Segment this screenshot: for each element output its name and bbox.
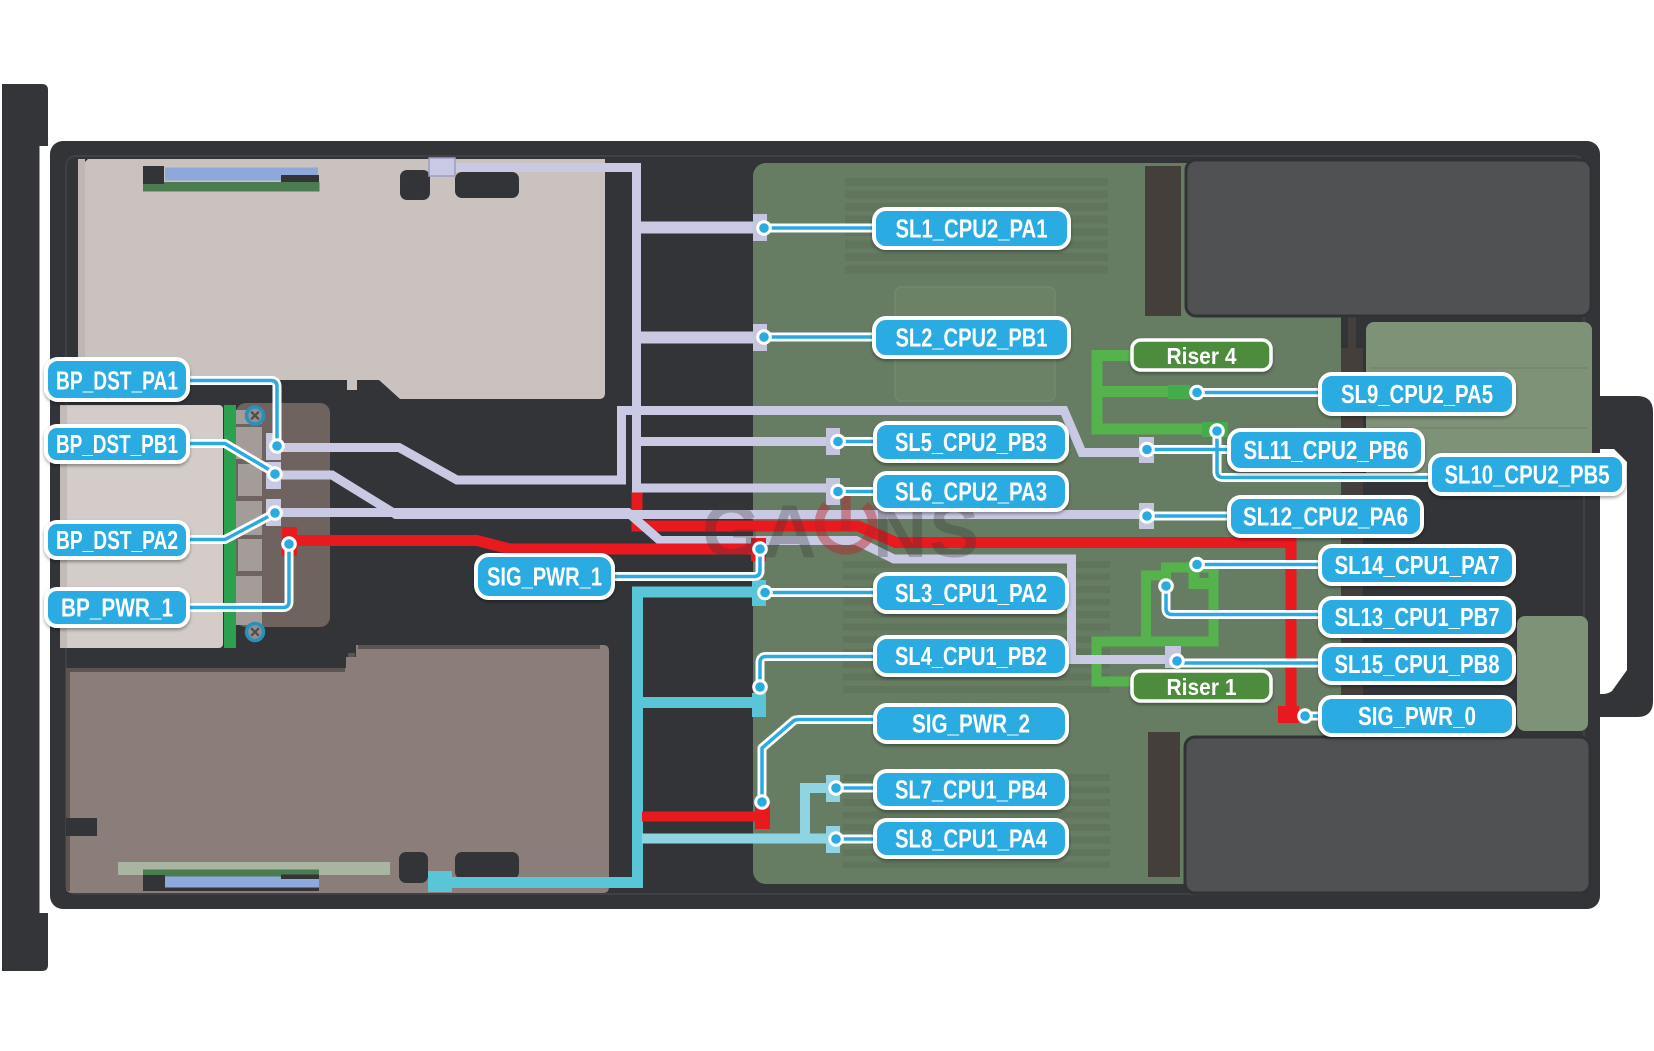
leader line SL13 bbox=[1166, 589, 1320, 615]
label SIG_PWR_0 bbox=[1320, 697, 1514, 735]
leader line SL1 bbox=[764, 226, 874, 230]
leader dot SL3 bbox=[759, 586, 772, 599]
leader line SL12 bbox=[1147, 514, 1229, 518]
leader line BP_PWR_1 bbox=[190, 548, 289, 608]
leader line SIG_PWR_0 bbox=[1305, 714, 1320, 718]
leader line SL9 bbox=[1197, 391, 1320, 395]
leader dot SIG_PWR_1 bbox=[754, 543, 767, 556]
label SL8_CPU1_PA4 bbox=[875, 820, 1067, 857]
svg-text:SL14_CPU1_PA7: SL14_CPU1_PA7 bbox=[1335, 550, 1500, 580]
leader line SIG_PWR_1 bbox=[613, 551, 760, 577]
cyan stub SL3 bbox=[752, 580, 766, 606]
leader dot SL11 bbox=[1141, 443, 1154, 456]
svg-text:SL8_CPU1_PA4: SL8_CPU1_PA4 bbox=[895, 824, 1047, 854]
label BP_DST_PB1 bbox=[46, 426, 188, 462]
lavender cable BP_DST_PA2 to SL15 bbox=[275, 513, 1170, 660]
label SL7_CPU1_PB4 bbox=[875, 771, 1067, 808]
leader line SL7 bbox=[836, 786, 874, 790]
label SIG_PWR_2 bbox=[875, 705, 1067, 742]
backplane green strip bbox=[224, 405, 236, 648]
red BP stub bbox=[282, 527, 297, 556]
DIMM bank C bbox=[843, 774, 1110, 869]
label SL15_CPU1_PB8 bbox=[1320, 645, 1514, 683]
svg-text:BP_DST_PA1: BP_DST_PA1 bbox=[56, 366, 178, 396]
svg-text:SL3_CPU1_PA2: SL3_CPU1_PA2 bbox=[895, 578, 1047, 608]
leader dots bbox=[269, 222, 1312, 846]
red cable B to SIG_PWR_0 bbox=[637, 490, 1291, 709]
lavender stub BP_DST_PA1 bbox=[266, 433, 281, 460]
connector stub SL5 bbox=[826, 428, 840, 455]
lower cage bottom strips bbox=[118, 862, 390, 875]
motherboard bbox=[753, 163, 1341, 884]
screw top bbox=[247, 407, 264, 424]
right PCB lower bbox=[1517, 616, 1588, 731]
red SIG_PWR_0 end bar bbox=[1278, 706, 1299, 723]
green cable riser4 trunk bbox=[1097, 356, 1214, 682]
leader dot SL13 bbox=[1160, 580, 1173, 593]
leader line BP_DST_PA2 bbox=[190, 514, 273, 540]
leader dot BP_DST_PA1 bbox=[271, 440, 284, 453]
DIMM bank B bbox=[843, 561, 1110, 693]
svg-text:SL12_CPU2_PA6: SL12_CPU2_PA6 bbox=[1243, 502, 1408, 532]
leader dot SL2 bbox=[758, 331, 771, 344]
cyan trunk: SL3 + bottom cage bbox=[445, 592, 753, 883]
label SL11_CPU2_PB6 bbox=[1229, 430, 1423, 470]
lavender stub BP_DST_PA2 bbox=[266, 499, 281, 526]
label SIG_PWR_1 bbox=[476, 555, 613, 598]
svg-text:SL5_CPU2_PB3: SL5_CPU2_PB3 bbox=[895, 427, 1047, 457]
leader dot SL12 bbox=[1141, 510, 1154, 523]
label SL2_CPU2_PB1 bbox=[874, 318, 1069, 357]
leader dot SL9 bbox=[1191, 386, 1204, 399]
leader dot SIG_PWR_2 bbox=[756, 796, 769, 809]
svg-text:BP_DST_PA2: BP_DST_PA2 bbox=[56, 525, 178, 555]
red cable A: BP_PWR to SIG_PWR_1 bbox=[289, 541, 755, 550]
connector stub SL6 bbox=[826, 478, 840, 505]
chassis inner bevel bbox=[66, 156, 1584, 894]
label BP_PWR_1 bbox=[46, 589, 188, 626]
svg-text:SL2_CPU2_PB1: SL2_CPU2_PB1 bbox=[896, 323, 1048, 353]
leader line SL14 bbox=[1197, 563, 1320, 567]
leader dot SL1 bbox=[758, 222, 771, 235]
top PSU bay bbox=[1186, 160, 1591, 316]
leader dot SIG_PWR_0 bbox=[1299, 710, 1312, 723]
leader dot SL10 bbox=[1211, 425, 1224, 438]
label SL12_CPU2_PA6 bbox=[1229, 497, 1422, 536]
leader dot SL5 bbox=[832, 435, 845, 448]
svg-text:SL10_CPU2_PB5: SL10_CPU2_PB5 bbox=[1445, 460, 1610, 490]
backplane beige panel bbox=[60, 405, 223, 648]
label Riser 1 bbox=[1132, 671, 1271, 701]
label SL9_CPU2_PA5 bbox=[1320, 374, 1514, 414]
label SL6_CPU2_PA3 bbox=[875, 473, 1067, 510]
leader line SL8 bbox=[836, 837, 874, 841]
leader dot SL8 bbox=[830, 833, 843, 846]
right handle bbox=[1598, 396, 1653, 717]
cyan connector bottom cage bbox=[428, 871, 452, 892]
lower drive cage bbox=[66, 645, 609, 893]
upper cage dark slots bbox=[400, 170, 430, 200]
lavender cable BP_DST_PA1 to SL11 bbox=[275, 411, 1142, 481]
red SIG_PWR_1 end bar bbox=[751, 538, 766, 561]
leader line SL6 bbox=[838, 490, 874, 494]
connector stub SL1 bbox=[753, 214, 767, 241]
leader dot SL6 bbox=[832, 485, 845, 498]
lavender cable: top cage to SL6 trunk bbox=[275, 168, 1170, 660]
connector stub SL15 bbox=[1165, 646, 1181, 668]
svg-text:SIG_PWR_1: SIG_PWR_1 bbox=[487, 562, 602, 592]
leader line SIG_PWR_2 bbox=[762, 720, 874, 802]
label SL10_CPU2_PB5 bbox=[1430, 455, 1624, 494]
upper cage top strip: green pcb bbox=[143, 182, 320, 192]
lavender branch SL5 bbox=[636, 437, 828, 446]
svg-text:SL11_CPU2_PB6: SL11_CPU2_PB6 bbox=[1244, 435, 1409, 465]
lavender branch SL1 bbox=[636, 222, 757, 234]
leader line white casings bbox=[190, 228, 1430, 839]
leader line SL4 bbox=[760, 657, 874, 688]
DIMM bank A bbox=[845, 178, 1108, 274]
red SIG_PWR_2 end bar bbox=[755, 804, 770, 829]
svg-text:SL9_CPU2_PA5: SL9_CPU2_PA5 bbox=[1341, 379, 1493, 409]
leader line SL3 bbox=[765, 591, 874, 595]
pale cyan stub SL7 bbox=[826, 775, 840, 802]
lavender stubs on mobo bbox=[753, 214, 1181, 668]
label SL14_CPU1_PA7 bbox=[1320, 546, 1514, 584]
leader line BP_DST_PB1 bbox=[190, 444, 273, 473]
riser divider bar bbox=[1348, 316, 1356, 352]
leader line SL2 bbox=[764, 335, 874, 339]
leader dot SL14 bbox=[1191, 558, 1204, 571]
green stub SL9 bbox=[1168, 385, 1190, 399]
dark bar next to top PSU bbox=[1145, 166, 1181, 316]
svg-text:SL7_CPU1_PB4: SL7_CPU1_PB4 bbox=[895, 775, 1047, 805]
svg-text:Riser 1: Riser 1 bbox=[1167, 674, 1237, 700]
lavender stub on top cage bbox=[429, 158, 455, 176]
label SL5_CPU2_PB3 bbox=[875, 423, 1067, 461]
lower cage dark slots bbox=[399, 852, 428, 883]
backplane body bbox=[236, 403, 330, 627]
upper cage top strip: dark block bbox=[143, 166, 164, 184]
dark bar next to bottom PSU bbox=[1148, 732, 1180, 877]
label SL1_CPU2_PA1 bbox=[874, 209, 1069, 248]
svg-text:SIG_PWR_2: SIG_PWR_2 bbox=[912, 709, 1030, 739]
leader dot BP_PWR_1 bbox=[283, 538, 296, 551]
leader line BP_DST_PA1 bbox=[190, 381, 277, 442]
leader dot SL7 bbox=[830, 782, 843, 795]
leader dot SL4 bbox=[754, 681, 767, 694]
svg-text:BP_DST_PB1: BP_DST_PB1 bbox=[56, 429, 178, 459]
connector stub SL11 bbox=[1139, 437, 1154, 463]
svg-text:SIG_PWR_0: SIG_PWR_0 bbox=[1358, 701, 1476, 731]
lavender branch SL2 bbox=[636, 332, 757, 344]
leader dot BP_DST_PB1 bbox=[269, 468, 282, 481]
cyan branch SL4 bbox=[637, 697, 753, 708]
label BP_DST_PA2 bbox=[46, 522, 188, 558]
pale cyan stub SL8 bbox=[826, 826, 840, 853]
label SL13_CPU1_PB7 bbox=[1320, 598, 1514, 636]
svg-text:SL4_CPU1_PB2: SL4_CPU1_PB2 bbox=[895, 641, 1047, 671]
right PCB upper bbox=[1366, 322, 1592, 480]
lavender stub BP_DST_PB1 bbox=[266, 462, 281, 489]
bottom PSU bay bbox=[1185, 737, 1590, 893]
svg-text:SL6_CPU2_PA3: SL6_CPU2_PA3 bbox=[895, 477, 1047, 507]
svg-text:BP_PWR_1: BP_PWR_1 bbox=[61, 593, 173, 623]
red cable C short to SIG_PWR_2 bbox=[642, 812, 757, 822]
leader line SL15 bbox=[1177, 661, 1320, 665]
svg-text:SL1_CPU2_PA1: SL1_CPU2_PA1 bbox=[896, 214, 1048, 244]
lavender cable BP_DST_PB1 to SL12 bbox=[275, 475, 1142, 515]
screw bottom bbox=[247, 624, 264, 641]
leader line SL5 bbox=[838, 440, 874, 444]
svg-text:SL15_CPU1_PB8: SL15_CPU1_PB8 bbox=[1335, 649, 1500, 679]
leader line SL11 bbox=[1147, 448, 1229, 452]
leader dot SL15 bbox=[1171, 655, 1184, 668]
CPU2 socket bbox=[895, 287, 1055, 401]
label Riser 4 bbox=[1132, 340, 1271, 370]
label SL4_CPU1_PB2 bbox=[875, 637, 1067, 675]
leader dot BP_DST_PA2 bbox=[269, 507, 282, 520]
connector stub SL12 bbox=[1139, 503, 1154, 529]
svg-text:Riser 4: Riser 4 bbox=[1167, 343, 1237, 369]
green stub SL10 bbox=[1202, 422, 1228, 437]
leader line SL10 bbox=[1217, 434, 1430, 478]
watermark GAONS bbox=[702, 489, 981, 573]
connector stub SL2 bbox=[753, 324, 767, 351]
label SL3_CPU1_PA2 bbox=[875, 574, 1067, 612]
lavender stubs on BP bbox=[266, 433, 281, 526]
upper cage top strip: blue module bbox=[165, 168, 318, 181]
backplane connector blocks bbox=[236, 410, 262, 625]
upper drive cage bbox=[78, 159, 605, 399]
chassis body bbox=[50, 141, 1600, 909]
left bezel bar bbox=[2, 84, 48, 971]
pale cyan cable SL7/SL8 bbox=[642, 788, 833, 839]
cyan stub SL4 bbox=[752, 693, 766, 717]
svg-text:SL13_CPU1_PB7: SL13_CPU1_PB7 bbox=[1335, 602, 1500, 632]
label BP_DST_PA1 bbox=[46, 359, 188, 400]
green cable riser1 zigzag bbox=[1097, 568, 1214, 682]
